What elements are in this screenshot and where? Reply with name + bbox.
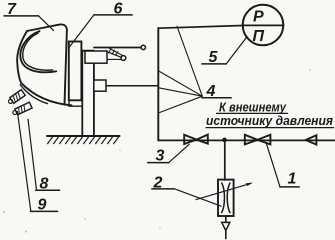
rotameter float curves: [222, 183, 225, 213]
ground hatching: [48, 136, 119, 143]
svg-text:К внешнему: К внешнему: [219, 101, 287, 115]
bracket plate 6: [69, 42, 82, 101]
wire bottom horizontal line: [158, 139, 335, 141]
pressure gauge U5 circle P/P: [243, 5, 284, 46]
rotameter adjust arrow: [196, 183, 251, 199]
prong lower line: [107, 58, 121, 60]
bracket foot step: [69, 100, 82, 106]
outlet arrow triangle: [222, 222, 230, 230]
wire gauge diameter: [243, 24, 284, 26]
fan leader lines of label 4: [177, 26, 202, 96]
body bottom edge: [21, 83, 72, 106]
measuring head body 7 outline: [27, 24, 67, 104]
svg-text:Р: Р: [253, 9, 264, 26]
probe rod: [94, 47, 141, 49]
wire drop to rotameter: [224, 140, 226, 180]
svg-text:П: П: [253, 28, 265, 45]
flow direction arrow: [306, 135, 317, 144]
prong hatch: [109, 49, 119, 55]
second prong: [107, 48, 123, 57]
support column: [81, 51, 94, 136]
valve V1 bowtie: [245, 135, 258, 145]
stub box lower: [94, 80, 106, 91]
rotameter FL2 body: [218, 180, 234, 216]
svg-text:1: 1: [288, 171, 297, 188]
prong tip circle: [121, 56, 126, 61]
nozzle screw 9: [12, 102, 32, 116]
svg-text:3: 3: [156, 147, 165, 164]
body window arc: [20, 31, 56, 72]
nozzle screw 8: [7, 90, 25, 106]
scan specks: [3, 69, 311, 232]
node junction dot: [222, 138, 227, 143]
rotameter outlet stem: [225, 216, 227, 222]
ground line: [47, 135, 120, 137]
wire top horizontal to gauge: [158, 26, 242, 29]
stub box upper: [85, 51, 107, 63]
svg-text:источнику давления: источнику давления: [206, 114, 334, 128]
wire vertical main line: [157, 28, 159, 140]
window inner arc: [23, 33, 53, 70]
outlet tail wire: [225, 231, 227, 239]
valve V3 bowtie: [184, 135, 196, 144]
probe tip circle: [141, 45, 145, 49]
body bottom seam: [20, 85, 47, 104]
wire from device box to main line: [106, 85, 158, 87]
